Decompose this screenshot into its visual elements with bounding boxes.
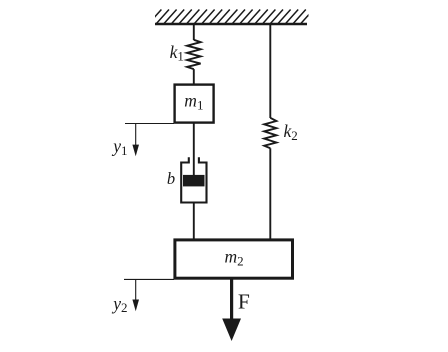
reference line y1	[125, 123, 174, 125]
mass m2	[175, 240, 293, 278]
wire: rod m1 to damper piston	[193, 123, 195, 176]
wire: rod ceiling to spring k2	[269, 24, 271, 118]
damper b cylinder	[181, 157, 206, 202]
ceiling line	[155, 23, 307, 25]
force F arrow	[230, 279, 233, 321]
svg-text:F: F	[238, 289, 250, 313]
wire: rod from ceiling to spring k1	[193, 24, 195, 40]
reference line y2	[124, 278, 174, 280]
damper b piston	[183, 175, 205, 187]
wire: rod damper to mass m2	[193, 204, 195, 241]
spring k1	[187, 40, 201, 69]
arrow y1	[135, 124, 137, 147]
svg-text:b: b	[167, 169, 175, 188]
ceiling hatching	[148, 10, 313, 25]
spring k2	[264, 118, 276, 149]
arrow y2	[135, 279, 137, 301]
mass m1	[175, 85, 214, 123]
wire: rod spring k2 to mass m2	[269, 148, 271, 240]
wire: rod spring k1 to mass m1	[193, 69, 195, 84]
